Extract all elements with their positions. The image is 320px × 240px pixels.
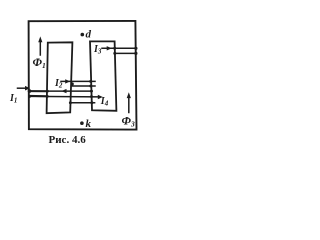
svg-text:d: d	[86, 29, 92, 41]
svg-text:I2: I2	[54, 78, 63, 90]
svg-text:Φ1: Φ1	[33, 55, 46, 70]
svg-text:I3: I3	[93, 44, 102, 56]
svg-text:I1: I1	[9, 93, 17, 105]
svg-text:I4: I4	[100, 96, 109, 108]
svg-text:Рис. 4.6: Рис. 4.6	[49, 134, 87, 146]
svg-text:k: k	[86, 118, 92, 130]
svg-text:Φ3: Φ3	[122, 114, 135, 129]
